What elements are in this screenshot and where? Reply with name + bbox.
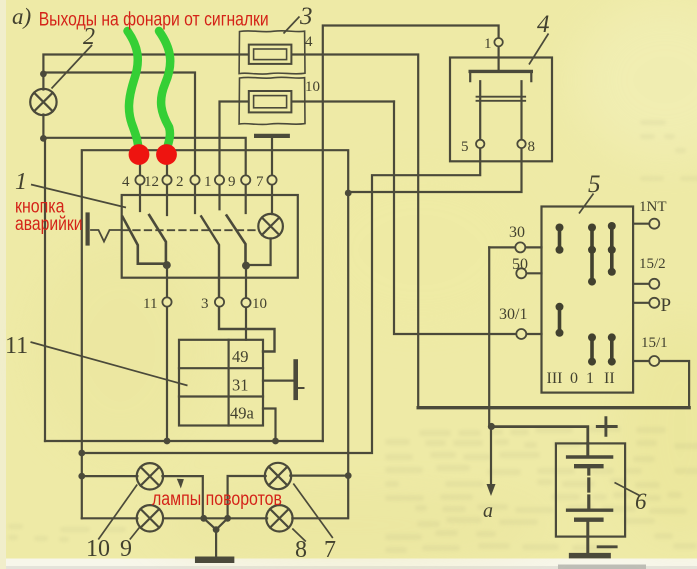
svg-text:III: III (547, 370, 563, 387)
svg-text:6: 6 (635, 489, 647, 514)
svg-text:10: 10 (86, 536, 110, 562)
svg-text:1: 1 (204, 174, 212, 190)
svg-text:8: 8 (295, 537, 307, 563)
svg-text:Выходы на фонари от сигналки: Выходы на фонари от сигналки (39, 10, 269, 31)
svg-text:3: 3 (299, 3, 313, 30)
svg-text:аварийки: аварийки (15, 214, 83, 235)
svg-text:1: 1 (586, 370, 594, 387)
svg-text:4: 4 (537, 11, 550, 38)
svg-text:15/2: 15/2 (639, 256, 666, 272)
svg-text:3: 3 (201, 296, 209, 312)
svg-text:лампы поворотов: лампы поворотов (152, 489, 282, 510)
svg-text:10: 10 (305, 79, 320, 95)
svg-text:30/1: 30/1 (499, 306, 527, 323)
svg-text:0: 0 (570, 370, 578, 387)
svg-text:1: 1 (15, 169, 27, 195)
svg-text:7: 7 (324, 537, 336, 563)
svg-text:50: 50 (512, 256, 528, 273)
svg-text:1NT: 1NT (639, 199, 667, 215)
svg-text:12: 12 (144, 174, 159, 190)
svg-text:4: 4 (122, 174, 130, 190)
svg-text:P: P (661, 295, 672, 316)
svg-text:49: 49 (232, 347, 249, 366)
svg-text:4: 4 (305, 34, 313, 50)
svg-text:II: II (604, 370, 615, 387)
svg-text:9: 9 (120, 536, 132, 562)
svg-text:30: 30 (509, 224, 525, 241)
svg-text:11: 11 (143, 296, 157, 312)
svg-text:9: 9 (228, 174, 236, 190)
svg-text:31: 31 (232, 376, 249, 395)
svg-text:1: 1 (484, 36, 492, 52)
svg-text:2: 2 (176, 174, 184, 190)
svg-text:11: 11 (5, 333, 28, 359)
svg-text:7: 7 (256, 174, 264, 190)
svg-text:49a: 49a (230, 404, 255, 423)
svg-text:10: 10 (252, 296, 267, 312)
svg-text:15/1: 15/1 (641, 335, 668, 351)
svg-text:5: 5 (461, 139, 469, 155)
svg-text:8: 8 (528, 139, 536, 155)
svg-text:5: 5 (588, 171, 601, 198)
svg-text:2: 2 (83, 24, 95, 50)
svg-text:а: а (483, 500, 493, 522)
svg-text:а): а) (12, 4, 31, 29)
